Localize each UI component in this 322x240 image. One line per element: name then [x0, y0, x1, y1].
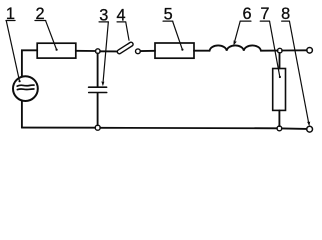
- terminal bottom right: [307, 126, 313, 132]
- resistor R5: [155, 43, 194, 58]
- node C junction circle on rail: [277, 126, 282, 131]
- resistor R7 bottom lead: [278, 110, 280, 126]
- label 3: [99, 6, 108, 86]
- bottom rail right segment: [282, 127, 307, 130]
- node B junction circle: [278, 48, 283, 53]
- node A junction circle: [96, 49, 101, 54]
- label 7: [260, 5, 281, 78]
- wire switch to R5: [140, 50, 155, 52]
- resistor R7 top lead: [279, 53, 281, 69]
- resistor R2: [37, 43, 76, 58]
- capacitor C3 top lead: [97, 53, 99, 86]
- capacitor C3 plates: [89, 87, 107, 92]
- wire source bottom to rail: [21, 101, 23, 127]
- node junction circle below C3 on rail: [95, 125, 100, 130]
- switch S4 right contact circle: [136, 49, 141, 54]
- wire top-left corner to R2: [22, 50, 37, 76]
- bottom rail left segment: [22, 127, 95, 129]
- bottom rail middle segment: [100, 127, 277, 130]
- wire node A to switch blade: [100, 50, 117, 52]
- AC source G1: [13, 76, 38, 101]
- switch S4 blade (open, outlined bar): [117, 42, 134, 55]
- label 8: [281, 5, 310, 126]
- resistor R7: [273, 69, 286, 111]
- label 1: [6, 5, 21, 82]
- terminal top right: [307, 48, 313, 54]
- label 4: [116, 6, 129, 40]
- wire R5 to L6: [194, 50, 210, 52]
- capacitor C3 bottom lead: [97, 93, 99, 125]
- wire node B to terminal: [282, 49, 307, 51]
- label 2: [35, 5, 58, 51]
- wire L6 to node B: [261, 50, 278, 52]
- label 6: [233, 5, 251, 45]
- wire R2 to node A: [76, 50, 96, 52]
- label 5: [163, 6, 183, 51]
- inductor L6: [210, 45, 261, 50]
